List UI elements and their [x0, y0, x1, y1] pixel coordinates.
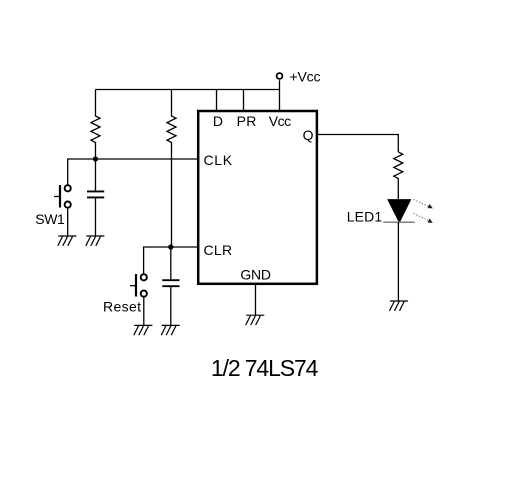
svg-text:GND: GND	[240, 266, 271, 282]
svg-text:LED1: LED1	[347, 209, 383, 225]
capacitor C1	[87, 159, 104, 236]
LED light arrow 2	[414, 213, 433, 223]
svg-text:Reset: Reset	[103, 298, 141, 314]
wire Reset to ground	[143, 297, 145, 325]
node junction CLR/R2/C2	[168, 244, 173, 249]
ground under GND pin	[246, 315, 265, 325]
svg-text:Vcc: Vcc	[269, 113, 291, 129]
LED LED1	[383, 200, 415, 223]
wire PR pin stub	[243, 90, 245, 112]
wire Q output	[317, 135, 398, 153]
ground under SW1	[58, 236, 77, 246]
ground under C2	[161, 325, 180, 335]
switch Reset	[130, 274, 147, 297]
resistor R1	[91, 90, 100, 160]
svg-text:Q: Q	[303, 127, 314, 143]
resistor R2	[167, 90, 176, 248]
node junction CLK/R1/C1	[93, 156, 98, 161]
svg-text:PR: PR	[237, 113, 257, 129]
ground under Reset	[134, 325, 153, 335]
LED light arrow 1	[414, 200, 433, 209]
+Vcc terminal	[277, 73, 283, 79]
svg-text:+Vcc: +Vcc	[290, 68, 321, 84]
svg-text:CLR: CLR	[204, 242, 233, 258]
switch SW1	[54, 185, 71, 208]
resistor R3	[394, 152, 403, 200]
wire SW1 to ground	[67, 208, 69, 236]
wire CLR net	[144, 247, 197, 273]
wire Vcc pin stub	[279, 80, 281, 111]
svg-text:SW1: SW1	[35, 211, 65, 227]
wire CLK net	[68, 159, 197, 185]
op IC U1 74LS74 box	[198, 111, 317, 284]
wire top supply bus	[96, 89, 280, 91]
wire LED cathode to ground	[397, 222, 399, 301]
wire GND pin to ground	[255, 284, 257, 315]
svg-text:1/2 74LS74: 1/2 74LS74	[211, 355, 319, 381]
wire D pin stub	[216, 90, 218, 112]
capacitor C2	[162, 247, 179, 325]
svg-text:CLK: CLK	[204, 152, 233, 168]
ground under LED	[390, 301, 409, 311]
ground under C1	[86, 236, 105, 246]
svg-text:D: D	[213, 113, 223, 129]
